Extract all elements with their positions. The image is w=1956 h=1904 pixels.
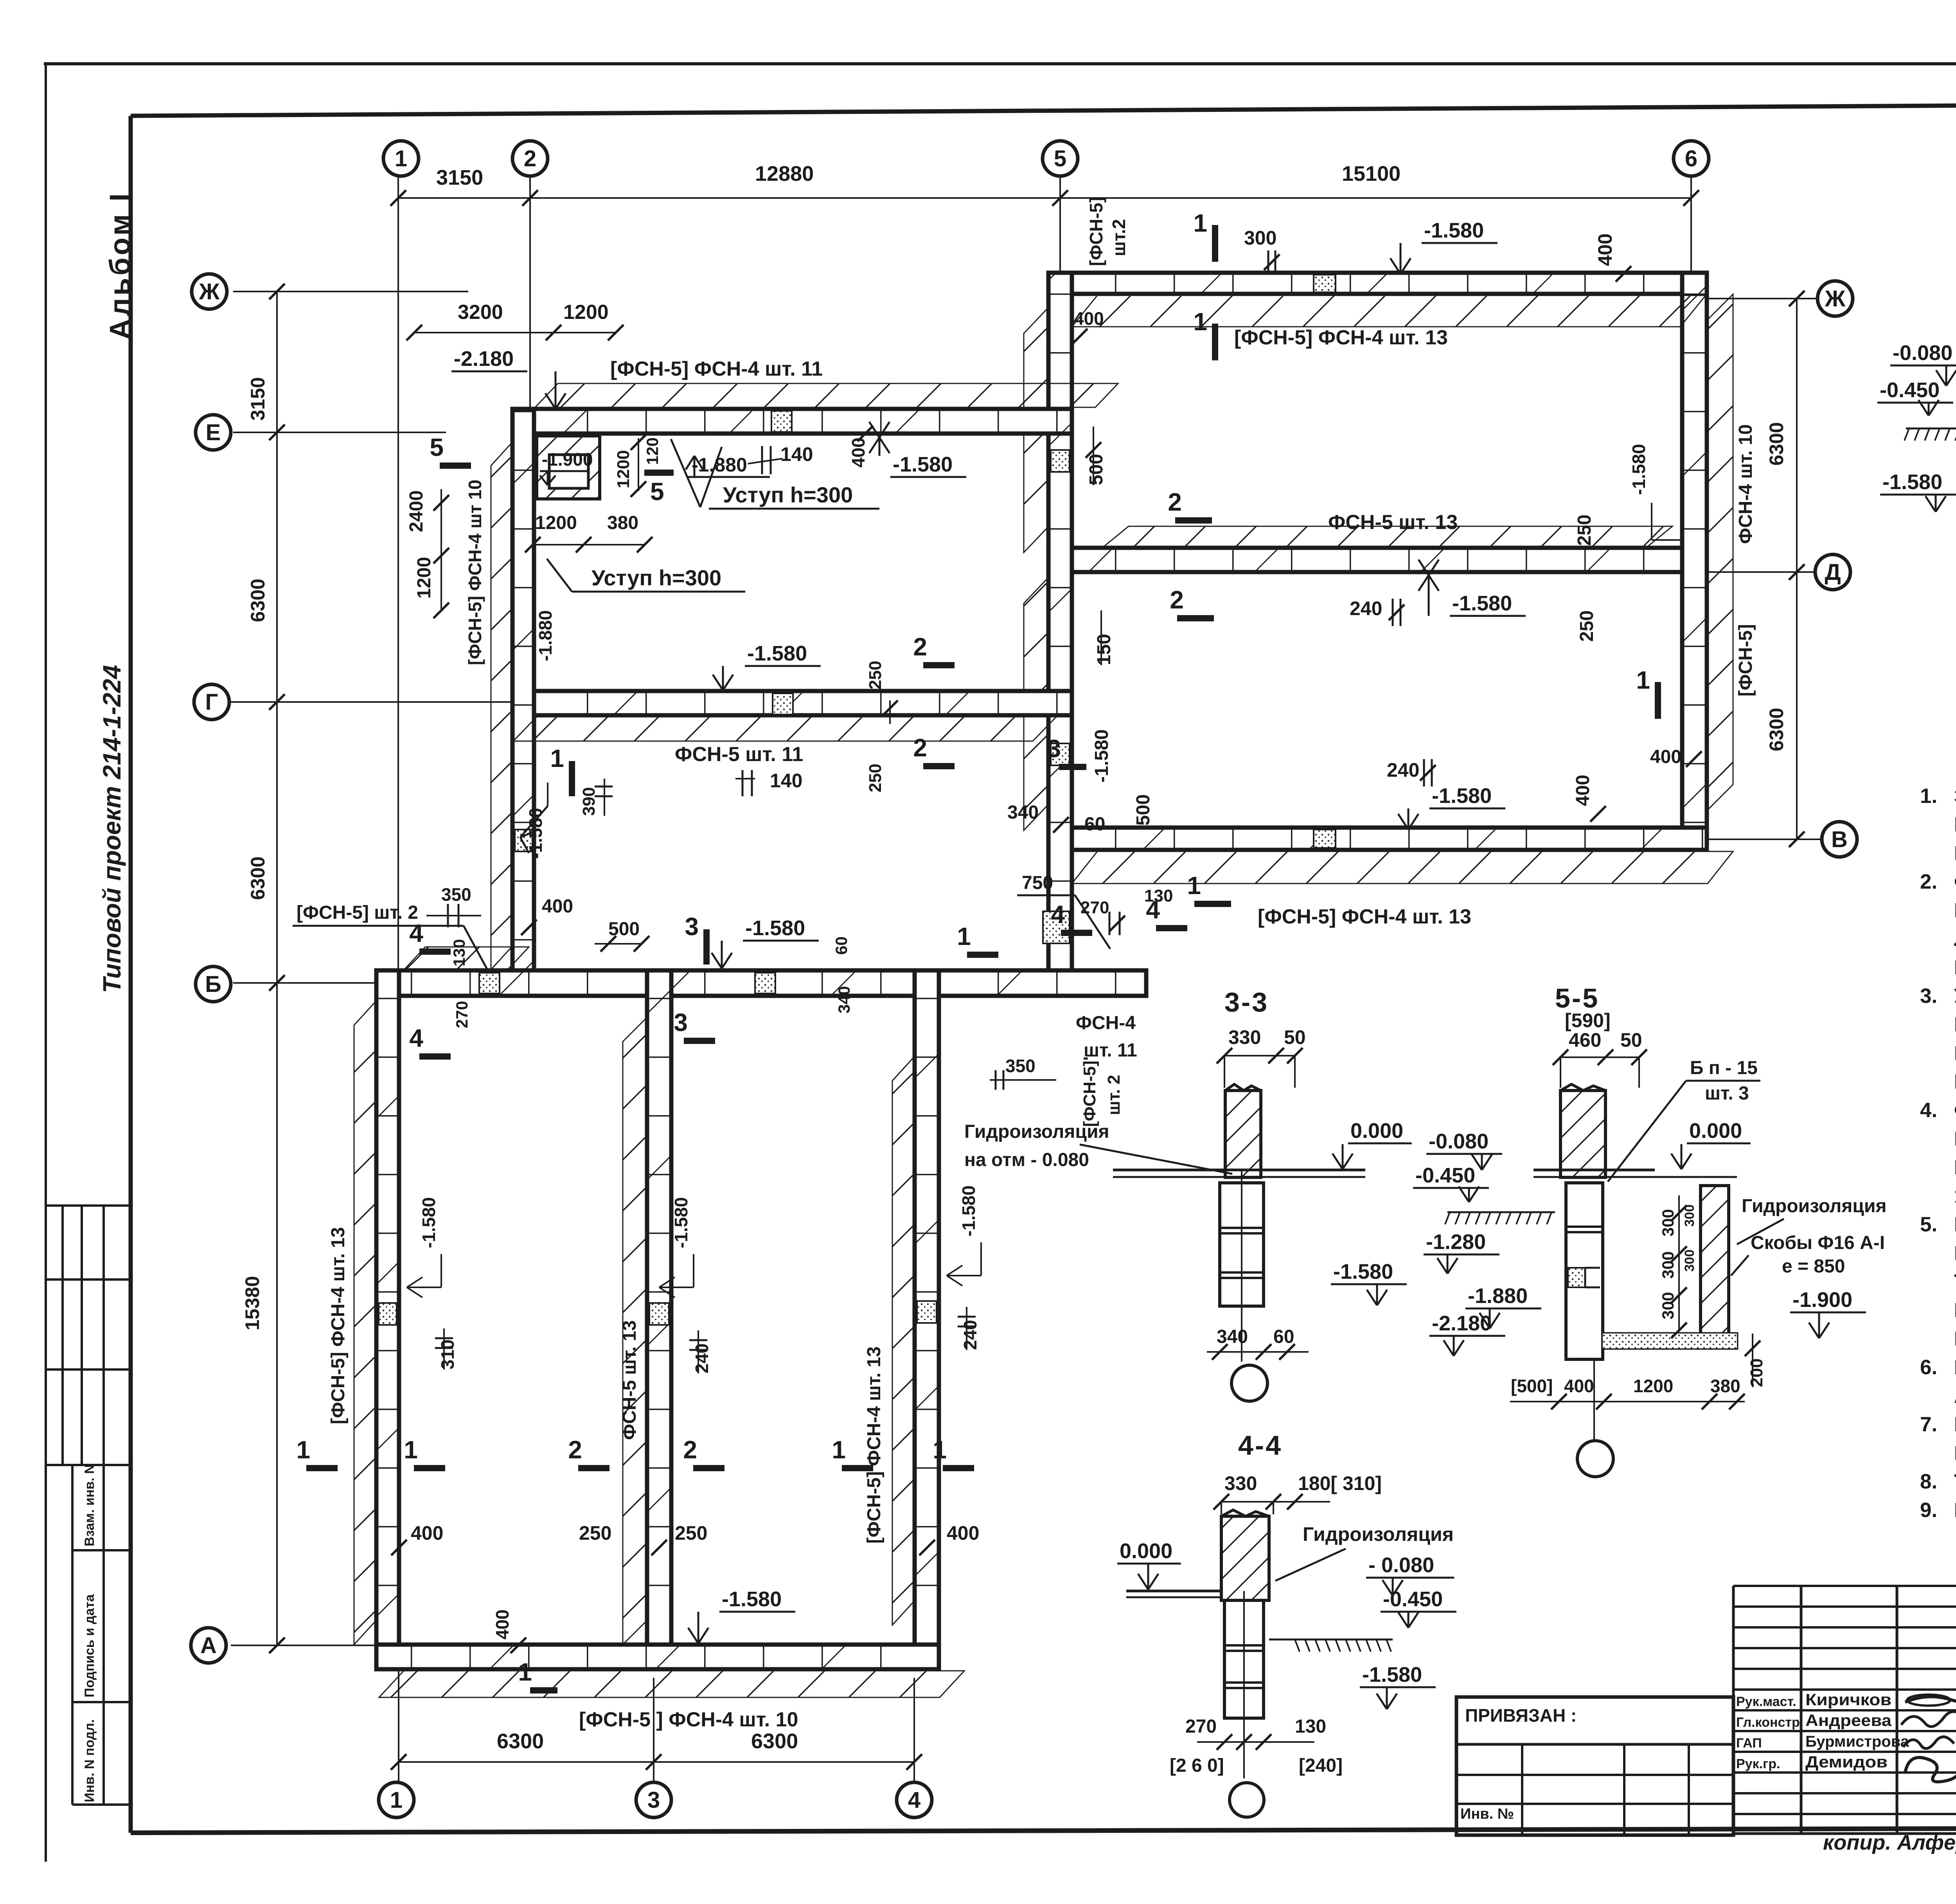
sheet outer border left xyxy=(45,64,47,1862)
svg-text:1: 1 xyxy=(933,1436,947,1464)
svg-text:2: 2 xyxy=(683,1436,697,1464)
svg-text:200: 200 xyxy=(1747,1359,1766,1387)
wall bottom block left (axis 1) xyxy=(376,970,399,1669)
stipple joint right stub xyxy=(1043,911,1070,943)
svg-text:Взам. инв. N: Взам. инв. N xyxy=(82,1464,97,1546)
svg-text:ФСН-5 шт. 13: ФСН-5 шт. 13 xyxy=(619,1320,640,1440)
svg-text:-2.180: -2.180 xyxy=(454,347,514,371)
svg-text:0.000: 0.000 xyxy=(1120,1539,1172,1563)
svg-text:2400: 2400 xyxy=(406,490,427,532)
wall upper-left block middle (Г) xyxy=(512,691,1072,715)
svg-text:240: 240 xyxy=(692,1343,712,1373)
svg-text:400: 400 xyxy=(1564,1376,1594,1396)
hatch band below Г wall xyxy=(513,717,1056,741)
wall bottom block bottom (А) xyxy=(376,1645,939,1669)
svg-text:Ж: Ж xyxy=(1825,286,1846,311)
wall bottom block interior (axis 3) xyxy=(647,970,671,1669)
svg-text:Д: Д xyxy=(1825,560,1841,585)
svg-text:750: 750 xyxy=(1022,873,1053,893)
left margin upper table xyxy=(47,1204,131,1207)
svg-text:240: 240 xyxy=(960,1320,980,1350)
section mark 4 right pair xyxy=(1061,930,1092,936)
pit detail in upper-left block xyxy=(537,436,600,499)
svg-text:Подпись и дата: Подпись и дата xyxy=(82,1594,97,1697)
stipple joint upper-left left wall xyxy=(515,830,532,851)
svg-text:-0.080: -0.080 xyxy=(1429,1130,1489,1153)
hatch band below bottom wall xyxy=(1072,851,1733,884)
axis circle 2 top xyxy=(512,141,548,176)
svg-text:Альбом I: Альбом I xyxy=(104,191,136,340)
svg-text:400: 400 xyxy=(1594,234,1616,266)
svg-text:1200: 1200 xyxy=(1633,1376,1673,1396)
svg-text:ВОКРУГ ЗДАНИЯ ПРЕДУСМАТРИВАЕТС: ВОКРУГ ЗДАНИЯ ПРЕДУСМАТРИВАЕТСЯ xyxy=(1954,1356,1956,1379)
axis Ж line (right) xyxy=(1708,298,1818,299)
axis 4 vertical line (bottom) xyxy=(913,1678,915,1783)
svg-text:8.: 8. xyxy=(1920,1470,1937,1493)
section mark 1 top right blk xyxy=(1212,225,1218,262)
svg-text:Б п - 15: Б п - 15 xyxy=(1690,1058,1758,1078)
svg-text:6300: 6300 xyxy=(1765,708,1787,751)
svg-text:60: 60 xyxy=(832,936,850,955)
svg-text:Инв. №: Инв. № xyxy=(1460,1806,1514,1822)
svg-text:[2 6 0]: [2 6 0] xyxy=(1170,1755,1224,1776)
svg-text:-1.900: -1.900 xyxy=(1792,1288,1852,1312)
svg-text:6300: 6300 xyxy=(247,579,269,622)
wall bottom block top (Б) xyxy=(379,970,1146,996)
svg-text:300: 300 xyxy=(1244,227,1276,249)
svg-text:-0.450: -0.450 xyxy=(1880,378,1940,402)
svg-text:e = 850: e = 850 xyxy=(1782,1256,1845,1277)
svg-text:5.: 5. xyxy=(1920,1213,1937,1236)
axis circle Е left xyxy=(196,415,231,450)
svg-text:ФСН-4 шт. 10: ФСН-4 шт. 10 xyxy=(1735,424,1756,544)
svg-text:330: 330 xyxy=(1228,1026,1261,1048)
svg-text:Гидроизоляция: Гидроизоляция xyxy=(964,1121,1109,1142)
svg-text:5: 5 xyxy=(430,433,444,461)
svg-text:-1.580: -1.580 xyxy=(419,1197,439,1248)
signature squiggle 2 xyxy=(1901,1711,1956,1726)
svg-text:[ФСН-5]: [ФСН-5] xyxy=(1735,624,1756,696)
svg-text:250: 250 xyxy=(866,764,885,792)
svg-text:ВЫРАВНЕННОЕ ПЕСЧАНОЕ ОСНОВАНИЕ: ВЫРАВНЕННОЕ ПЕСЧАНОЕ ОСНОВАНИЕ ТОЛЩ. xyxy=(1954,1156,1956,1179)
svg-text:5: 5 xyxy=(650,477,664,506)
signature squiggle 4 xyxy=(1905,1758,1956,1782)
svg-text:-1.580: -1.580 xyxy=(722,1587,782,1611)
svg-text:1: 1 xyxy=(1636,666,1650,694)
axis circle 1 top xyxy=(383,141,419,176)
svg-text:1200: 1200 xyxy=(414,557,435,599)
section mark 4 left xyxy=(419,948,451,955)
hatch band above upper-left top wall xyxy=(535,383,1118,407)
svg-text:140: 140 xyxy=(770,770,802,792)
axis Е line (left) xyxy=(233,432,446,433)
svg-text:[240]: [240] xyxy=(1299,1755,1343,1776)
svg-text:300: 300 xyxy=(1659,1251,1677,1279)
svg-text:В: В xyxy=(1831,827,1848,852)
hatch band left of upper-left wall xyxy=(491,443,512,970)
axis circle А left xyxy=(191,1628,226,1663)
svg-text:ГО ПОЛА 1ГО ЭТАЖА, ЧТО СООТВЕТ: ГО ПОЛА 1ГО ЭТАЖА, ЧТО СООТВЕТСТВУ- xyxy=(1954,813,1956,836)
section mark 1 pair top bb xyxy=(967,952,998,958)
svg-text:ЕТ АБСОЛЮТНОЙ ОТМЕТКЕ.: ЕТ АБСОЛЮТНОЙ ОТМЕТКЕ. xyxy=(1954,842,1956,865)
svg-text:-1.580: -1.580 xyxy=(1424,219,1484,242)
axis circle 3 bottom xyxy=(636,1782,671,1818)
svg-text:3: 3 xyxy=(647,1787,660,1813)
svg-text:150: 150 xyxy=(1094,634,1115,665)
svg-text:-0.080: -0.080 xyxy=(1893,341,1952,365)
stipple joint bottom top wall-2 xyxy=(755,973,775,993)
svg-text:1: 1 xyxy=(1193,209,1207,237)
svg-text:400: 400 xyxy=(492,1609,512,1639)
svg-text:250: 250 xyxy=(675,1522,707,1544)
svg-text:270: 270 xyxy=(1185,1716,1217,1737)
svg-text:2: 2 xyxy=(913,633,927,661)
svg-text:1: 1 xyxy=(404,1436,418,1464)
left margin lower table xyxy=(72,1464,131,1466)
svg-text:350: 350 xyxy=(441,884,471,905)
svg-text:Гл.констр: Гл.констр xyxy=(1736,1715,1800,1730)
svg-text:500: 500 xyxy=(608,919,640,939)
hatch band left of right wall xyxy=(892,1058,913,1625)
svg-text:ПРИ ОБЯЗАТЕЛЬНОМ ЗАГЛУБЛЕНИИ В: ПРИ ОБЯЗАТЕЛЬНОМ ЗАГЛУБЛЕНИИ В МАТЕ- xyxy=(1954,1042,1956,1065)
привязан box grid xyxy=(1456,1697,1733,1835)
svg-text:Андреева: Андреева xyxy=(1805,1711,1892,1729)
svg-text:[ФСН-5] ФСН-4 шт 10: [ФСН-5] ФСН-4 шт 10 xyxy=(465,480,485,665)
svg-text:7.: 7. xyxy=(1920,1413,1937,1436)
section marks row mid-bottom xyxy=(306,1465,338,1471)
svg-text:[ФСН-5] ФСН-4 шт. 13: [ФСН-5] ФСН-4 шт. 13 xyxy=(1258,905,1471,928)
svg-text:390: 390 xyxy=(579,787,599,816)
svg-text:ТУМНОЙ МАСТИКЕ НА ОТМ.-0.080,В: ТУМНОЙ МАСТИКЕ НА ОТМ.-0.080,ВЕРТИ- xyxy=(1954,1270,1956,1293)
bottom dimension line xyxy=(399,1761,914,1763)
svg-text:АСФАЛЬТОВАЯ ОТМОСТКА ШИРИНОЙ 7: АСФАЛЬТОВАЯ ОТМОСТКА ШИРИНОЙ 700ММ. xyxy=(1954,1384,1956,1407)
axis 3 vertical line (bottom) xyxy=(653,1678,654,1783)
svg-text:- 0.080: - 0.080 xyxy=(1368,1553,1434,1577)
svg-text:[590]: [590] xyxy=(1565,1010,1611,1031)
svg-text:[ФСН-5] ФСН-4 шт. 13: [ФСН-5] ФСН-4 шт. 13 xyxy=(1234,326,1448,349)
section mark 5 upper xyxy=(644,470,674,476)
wall top-right block top (Ж) xyxy=(1050,273,1707,294)
svg-text:шт.2: шт.2 xyxy=(1109,219,1129,256)
svg-text:380: 380 xyxy=(607,513,638,533)
svg-text:12880: 12880 xyxy=(755,162,814,185)
svg-text:400: 400 xyxy=(1074,308,1104,329)
svg-text:240: 240 xyxy=(1350,597,1382,619)
section mark 3 mid xyxy=(1059,764,1086,770)
svg-text:460: 460 xyxy=(1569,1029,1601,1051)
inner frame bottom xyxy=(131,1827,1956,1833)
section mark 1 right xyxy=(1655,682,1661,719)
svg-text:-1.580: -1.580 xyxy=(671,1197,691,1248)
svg-text:М-50: М-50 xyxy=(1954,1442,1956,1465)
svg-text:1200: 1200 xyxy=(563,301,609,324)
axis circle Г left xyxy=(194,684,229,720)
axis Д line (right) xyxy=(1708,571,1815,573)
svg-text:3-3: 3-3 xyxy=(1224,987,1269,1017)
svg-text:500: 500 xyxy=(1086,454,1107,485)
axis 1 vertical line xyxy=(397,176,399,970)
signature squiggle 3 xyxy=(1903,1737,1954,1749)
svg-text:И ПРИ ТЕМПЕРАТУРЕ tₙ=-30°, -40: И ПРИ ТЕМПЕРАТУРЕ tₙ=-30°, -40°С. xyxy=(1954,956,1956,979)
wall shared vertical (axis 5) xyxy=(1048,273,1072,996)
svg-text:1.: 1. xyxy=(1920,785,1937,808)
axis Г line (left) xyxy=(231,701,516,703)
svg-text:-2.180: -2.180 xyxy=(1432,1312,1492,1335)
axis circle 1 bottom xyxy=(379,1782,414,1818)
stipple joint interior wall xyxy=(649,1303,669,1325)
svg-text:400: 400 xyxy=(1573,775,1593,806)
stipple joint right wall xyxy=(917,1301,937,1323)
svg-text:330: 330 xyxy=(1224,1472,1257,1494)
axis circle Б left xyxy=(196,966,231,1002)
svg-text:Е: Е xyxy=(206,420,221,445)
svg-text:400: 400 xyxy=(1650,747,1681,767)
svg-text:1200: 1200 xyxy=(614,450,633,488)
svg-text:270: 270 xyxy=(1080,898,1109,917)
svg-text:6300: 6300 xyxy=(247,857,269,900)
svg-text:340: 340 xyxy=(1217,1326,1248,1347)
svg-text:шт. 11: шт. 11 xyxy=(1084,1040,1137,1061)
svg-text:ГОРИЗОНТАЛЬНАЯ ГИДРОИЗОЛЯЦИЯ В: ГОРИЗОНТАЛЬНАЯ ГИДРОИЗОЛЯЦИЯ ВЫПОЛ- xyxy=(1954,1213,1956,1236)
svg-text:350: 350 xyxy=(1005,1056,1036,1076)
svg-text:2: 2 xyxy=(1168,488,1182,516)
svg-text:250: 250 xyxy=(1577,610,1597,642)
svg-text:1: 1 xyxy=(296,1436,310,1464)
svg-text:6300: 6300 xyxy=(497,1729,544,1753)
svg-text:Бурмистрова: Бурмистрова xyxy=(1805,1733,1909,1750)
svg-text:БЛОКОВ ПО ГОСТ 13579-78 , УЛОЖ: БЛОКОВ ПО ГОСТ 13579-78 , УЛОЖЕННЫХ НА xyxy=(1954,1128,1956,1150)
svg-text:1: 1 xyxy=(1187,871,1201,900)
axis circle 6 top xyxy=(1674,141,1709,176)
stipple joint upper-left top wall xyxy=(771,411,792,432)
svg-text:180[ 310]: 180[ 310] xyxy=(1298,1472,1382,1494)
svg-text:Ж: Ж xyxy=(199,279,220,304)
section mark 2 pair upper xyxy=(1175,517,1212,524)
svg-text:400: 400 xyxy=(411,1522,443,1544)
svg-text:МОНТАЖ БЛОКОВ ВЫПОЛНЯТЬ НА РАС: МОНТАЖ БЛОКОВ ВЫПОЛНЯТЬ НА РАСТВОРЕ xyxy=(1954,1413,1956,1436)
svg-text:1: 1 xyxy=(1193,308,1207,336)
svg-text:РИКОВЫЙ ГРУНТ НЕ МЕНЕЕ 0,5 М.: РИКОВЫЙ ГРУНТ НЕ МЕНЕЕ 0,5 М. xyxy=(1954,1070,1956,1093)
svg-text:-1.580: -1.580 xyxy=(958,1186,979,1236)
svg-text:2.: 2. xyxy=(1920,870,1937,893)
svg-text:Уступ h=300: Уступ h=300 xyxy=(723,482,853,507)
svg-text:-1.580: -1.580 xyxy=(1629,444,1649,495)
svg-text:380: 380 xyxy=(1710,1376,1740,1396)
svg-text:60: 60 xyxy=(1084,814,1105,835)
section mark 1 bottom right blk xyxy=(1194,901,1231,907)
svg-text:-1.880: -1.880 xyxy=(535,610,556,661)
svg-text:-1.580: -1.580 xyxy=(1432,784,1492,808)
axis circle Ж left xyxy=(192,274,227,309)
svg-text:120: 120 xyxy=(643,437,662,465)
svg-text:4-4: 4-4 xyxy=(1238,1430,1282,1461)
svg-text:ФУНДАМЕНТЫ РАЗРАБОТАНЫ ДЛЯ ОСН: ФУНДАМЕНТЫ РАЗРАБОТАНЫ ДЛЯ ОСНОВА- xyxy=(1954,871,1956,893)
svg-text:270: 270 xyxy=(453,1001,471,1028)
svg-text:на отм - 0.080: на отм - 0.080 xyxy=(964,1150,1089,1170)
svg-text:5: 5 xyxy=(1054,146,1066,171)
axis circle 5 top xyxy=(1043,141,1078,176)
svg-text:15100: 15100 xyxy=(1342,162,1400,185)
svg-text:6300: 6300 xyxy=(751,1729,798,1753)
svg-text:3150: 3150 xyxy=(436,166,483,189)
axis circle Ж right xyxy=(1818,281,1853,316)
svg-text:ПРИНЯТО 1.130 М ОТ ПОВЕРХНОСТИ: ПРИНЯТО 1.130 М ОТ ПОВЕРХНОСТИ ЗЕМЛИ, xyxy=(1954,1013,1956,1036)
svg-text:Киричков: Киричков xyxy=(1805,1690,1891,1709)
wall upper-left block left (axis 2) xyxy=(512,409,534,970)
svg-text:100 ММ.: 100 ММ. xyxy=(1954,1185,1956,1208)
hatch band above middle wall xyxy=(1103,526,1672,547)
svg-text:300: 300 xyxy=(1682,1249,1697,1272)
svg-text:60: 60 xyxy=(1273,1326,1294,1347)
svg-text:ПРИВЯЗАН :: ПРИВЯЗАН : xyxy=(1465,1705,1577,1726)
svg-text:Г: Г xyxy=(205,689,218,715)
section mark 1 bottom hatch xyxy=(530,1687,557,1693)
svg-text:4: 4 xyxy=(1146,896,1160,924)
svg-text:-0.450: -0.450 xyxy=(1383,1587,1443,1611)
svg-text:Демидов: Демидов xyxy=(1805,1753,1888,1771)
wall bottom block right (axis 4) xyxy=(915,970,939,1669)
svg-text:-1.580: -1.580 xyxy=(745,916,805,940)
svg-text:шт. 3: шт. 3 xyxy=(1705,1083,1749,1104)
hatch band above bottom block top wall xyxy=(405,947,529,969)
svg-text:3: 3 xyxy=(685,912,699,941)
svg-text:-1.880: -1.880 xyxy=(1468,1284,1528,1308)
svg-text:Б: Б xyxy=(205,972,221,997)
svg-text:Типовой проект 214-1-224: Типовой проект 214-1-224 xyxy=(98,665,126,993)
stipple joint bottom top wall-1 xyxy=(479,973,500,993)
svg-text:1: 1 xyxy=(518,1658,532,1686)
svg-text:ГАП: ГАП xyxy=(1736,1736,1762,1751)
svg-text:Гидроизоляция: Гидроизоляция xyxy=(1742,1196,1886,1217)
svg-text:копир. Алферова: копир. Алферова xyxy=(1823,1831,1956,1854)
svg-text:Гидроизоляция: Гидроизоляция xyxy=(1303,1523,1454,1545)
stipple joint Г wall xyxy=(773,693,793,714)
svg-text:[ФСН-5 ] ФСН-4 шт. 10: [ФСН-5 ] ФСН-4 шт. 10 xyxy=(579,1708,798,1731)
svg-text:[ФСН-5]': [ФСН-5]' xyxy=(1080,1056,1099,1127)
svg-text:-1.580: -1.580 xyxy=(1882,470,1942,494)
svg-text:2: 2 xyxy=(524,146,536,171)
svg-text:Инв. N подл.: Инв. N подл. xyxy=(82,1719,97,1802)
hatch band left of shared wall lower xyxy=(1024,579,1047,830)
svg-text:3.: 3. xyxy=(1920,984,1937,1008)
svg-text:3150: 3150 xyxy=(247,377,269,421)
stipple joint bottom wall xyxy=(1314,830,1336,848)
right dimension line xyxy=(1796,299,1798,839)
svg-text:1: 1 xyxy=(390,1787,403,1813)
svg-text:400: 400 xyxy=(542,896,573,917)
svg-text:-0.450: -0.450 xyxy=(1415,1164,1475,1187)
stipple joint shared wall-1 xyxy=(1051,450,1070,472)
svg-text:310: 310 xyxy=(437,1339,458,1370)
section mark 3 pair top xyxy=(703,929,710,965)
axis Ж line (left) xyxy=(233,291,468,292)
axis В line (right) xyxy=(1708,839,1821,840)
axis circle 4 bottom xyxy=(897,1782,932,1818)
svg-text:300: 300 xyxy=(1682,1204,1697,1227)
svg-text:0.000: 0.000 xyxy=(1350,1119,1403,1143)
svg-text:НИЯ ИЗ ОДНОРОДНОГО ГРУНТА ПРИ: НИЯ ИЗ ОДНОРОДНОГО ГРУНТА ПРИ УС- xyxy=(1954,899,1956,922)
axis Б line (left) xyxy=(233,982,512,984)
svg-text:[500]: [500] xyxy=(1511,1376,1553,1396)
svg-text:[ФСН-5] ФСН-4 шт. 13: [ФСН-5] ФСН-4 шт. 13 xyxy=(864,1346,885,1544)
hatch band right of right wall xyxy=(1708,294,1733,809)
wall upper-left block top xyxy=(512,409,1072,434)
svg-text:1: 1 xyxy=(550,744,564,772)
svg-text:[ФСН-5] ФСН-4 шт. 11: [ФСН-5] ФСН-4 шт. 11 xyxy=(610,358,823,380)
svg-text:-1.580: -1.580 xyxy=(1452,592,1512,615)
svg-text:шт. 2: шт. 2 xyxy=(1104,1075,1124,1115)
svg-text:-1.580: -1.580 xyxy=(747,642,807,665)
svg-text:300: 300 xyxy=(1659,1292,1677,1319)
hatch band left of interior wall xyxy=(623,1019,645,1645)
section mark 4 inner xyxy=(419,1053,451,1060)
svg-text:РАЗМЕРЫ В СКОБКАХ [ ]ДАНЫ ДЛЯ: РАЗМЕРЫ В СКОБКАХ [ ]ДАНЫ ДЛЯ t°=-40°. xyxy=(1954,1499,1956,1522)
wall top-right block right (axis 6) xyxy=(1682,273,1707,850)
svg-text:ФСН-4: ФСН-4 xyxy=(1076,1013,1136,1033)
axis circle Д right xyxy=(1815,554,1850,590)
svg-text:ФСН-5 шт. 11: ФСН-5 шт. 11 xyxy=(675,743,803,766)
svg-text:1: 1 xyxy=(395,146,407,171)
svg-text:[ФСН-5] ФСН-4 шт. 13: [ФСН-5] ФСН-4 шт. 13 xyxy=(328,1227,349,1424)
svg-text:2: 2 xyxy=(913,734,927,762)
section mark 2 pair lower xyxy=(1177,615,1214,621)
svg-text:6.: 6. xyxy=(1920,1356,1937,1379)
svg-text:500: 500 xyxy=(1133,794,1154,826)
svg-text:Уступ h=300: Уступ h=300 xyxy=(591,565,721,590)
section mark 2 pair Г xyxy=(923,662,955,668)
svg-text:ГОРЯЧИМ БИТУМОМ ЗА 2 РАЗА.: ГОРЯЧИМ БИТУМОМ ЗА 2 РАЗА. xyxy=(1954,1328,1956,1350)
svg-text:ФСН-5 шт. 13: ФСН-5 шт. 13 xyxy=(1328,511,1458,534)
section mark 5 left xyxy=(440,463,471,469)
svg-text:250: 250 xyxy=(866,661,885,689)
svg-text:4: 4 xyxy=(409,919,423,947)
svg-text:4.: 4. xyxy=(1920,1099,1937,1122)
svg-text:4: 4 xyxy=(908,1787,920,1813)
svg-text:240: 240 xyxy=(1387,759,1419,781)
signature squiggle 1 xyxy=(1905,1696,1956,1702)
svg-text:2: 2 xyxy=(568,1436,582,1464)
svg-text:250: 250 xyxy=(1574,515,1595,546)
svg-text:3200: 3200 xyxy=(458,301,503,324)
left dimension line xyxy=(276,292,278,1645)
svg-text:ТАБЛИЦУ ОТВЕРСТИЙ СМ ЛИСТ АС-: ТАБЛИЦУ ОТВЕРСТИЙ СМ ЛИСТ АС-11 xyxy=(1954,1470,1956,1493)
svg-text:15380: 15380 xyxy=(241,1276,263,1330)
svg-text:-1.580: -1.580 xyxy=(1362,1663,1422,1686)
svg-text:1: 1 xyxy=(957,922,971,950)
svg-text:А: А xyxy=(200,1633,217,1658)
hatch band below bottom wall xyxy=(379,1671,964,1697)
svg-text:140: 140 xyxy=(780,443,813,465)
svg-text:400: 400 xyxy=(947,1522,979,1544)
svg-text:Скобы Ф16 А-I: Скобы Ф16 А-I xyxy=(1751,1233,1885,1253)
inner frame left xyxy=(129,116,133,1833)
secondary top dim 3200/1200 xyxy=(414,332,616,333)
top dimension line xyxy=(398,197,1691,199)
signature table grid xyxy=(1732,1586,1735,1834)
svg-text:4: 4 xyxy=(1051,900,1065,929)
svg-text:ЗА ОТМ. 0.000 ПРИНЯТА ОТМЕТКА: ЗА ОТМ. 0.000 ПРИНЯТА ОТМЕТКА ЧИСТО- xyxy=(1954,785,1956,808)
inner frame top xyxy=(131,103,1956,116)
axis А line (left) xyxy=(231,1645,378,1646)
hatch band below top wall xyxy=(1072,295,1706,327)
hatch band left of bottom-left wall xyxy=(354,1002,375,1645)
svg-text:[ФСН-5] шт. 2: [ФСН-5] шт. 2 xyxy=(297,902,418,923)
svg-text:0.000: 0.000 xyxy=(1689,1119,1742,1143)
axis circle В right xyxy=(1822,822,1857,857)
svg-text:6300: 6300 xyxy=(1765,422,1787,466)
wall top-right block middle (Д) xyxy=(1072,548,1682,572)
svg-text:Рук.гр.: Рук.гр. xyxy=(1736,1756,1780,1771)
